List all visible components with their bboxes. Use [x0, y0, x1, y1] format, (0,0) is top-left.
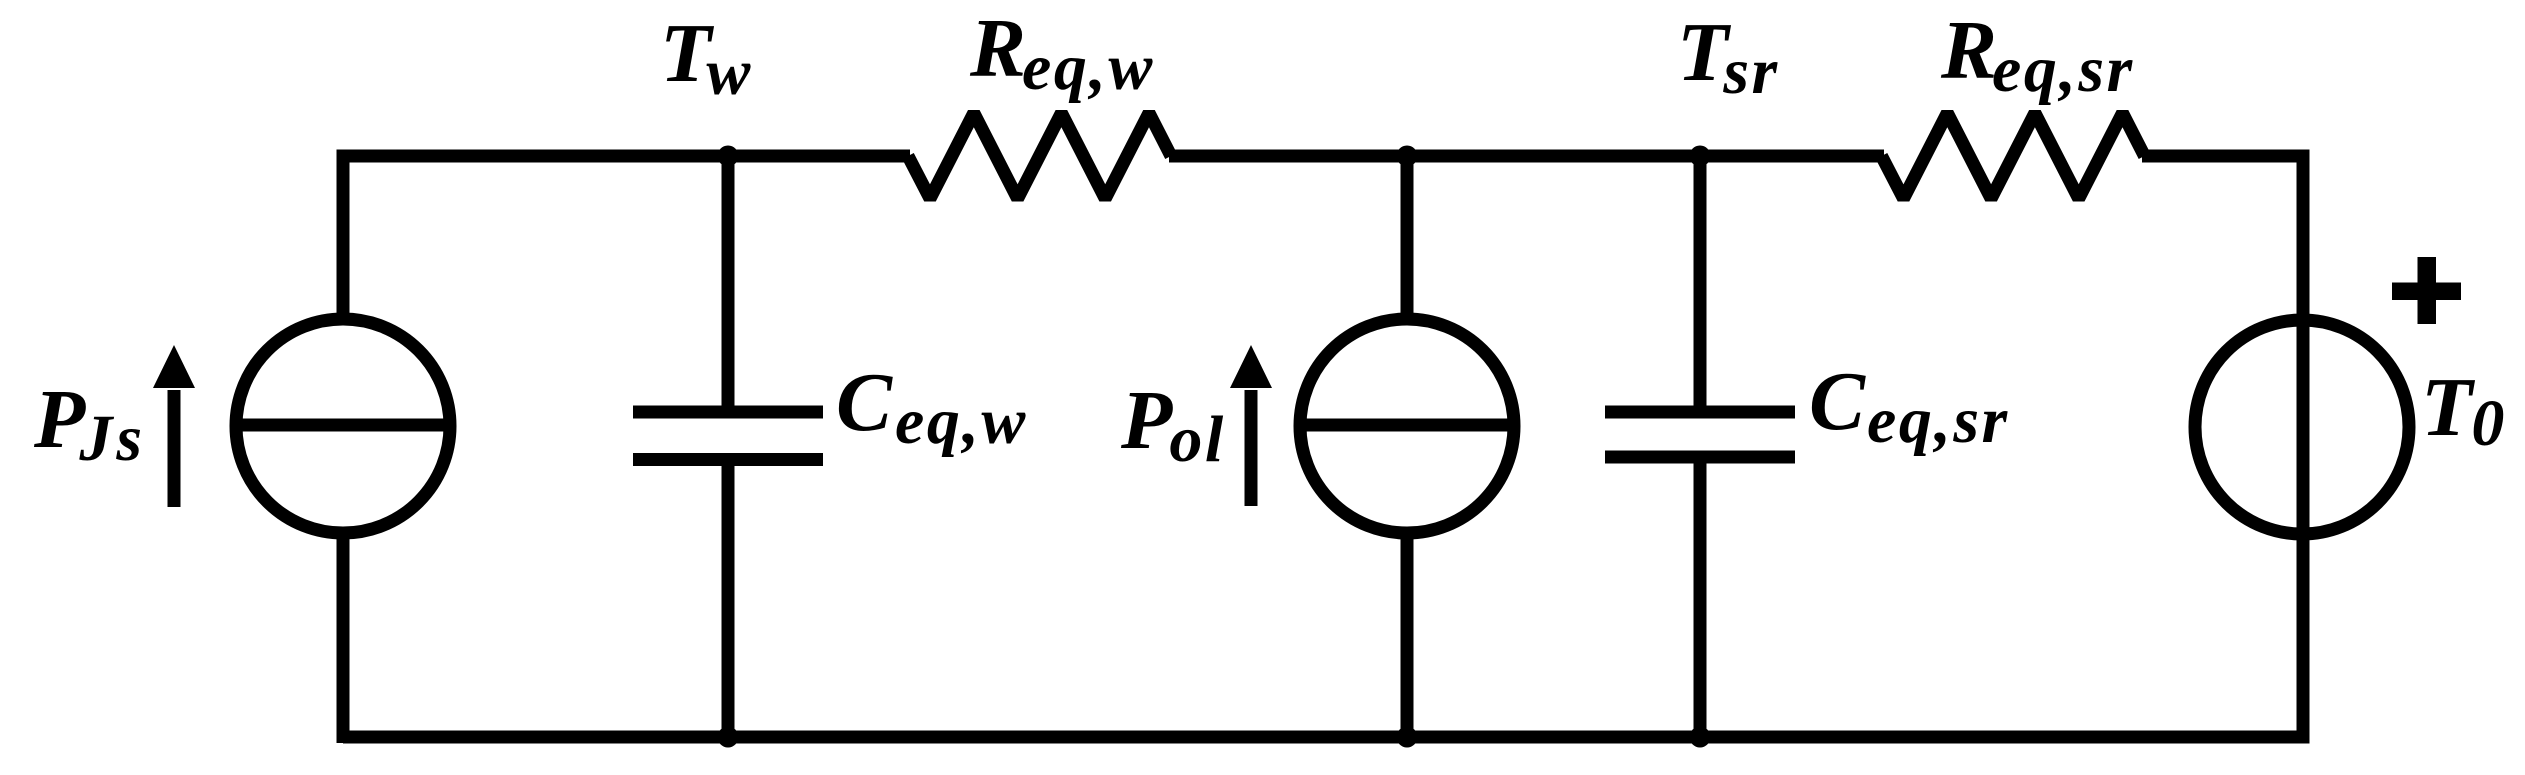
wire right vertical through T_0 source [2297, 150, 2310, 744]
wire top rail left segment [343, 150, 910, 163]
capacitor C_eq,sr top plate [1605, 406, 1795, 419]
node T_sr junction dot bottom [1690, 727, 1711, 748]
node P_ol junction dot bottom [1397, 727, 1418, 748]
capacitor C_eq,w bottom plate [633, 453, 823, 466]
arrow of source P_Js [153, 345, 195, 507]
wire T_sr branch upper [1694, 156, 1707, 406]
capacitor C_eq,sr bottom plate [1605, 451, 1795, 464]
node T_sr junction dot top [1690, 146, 1711, 167]
wire bottom rail [343, 731, 2303, 744]
voltage source T_0 circle [2195, 320, 2409, 534]
wire left vertical upper [337, 150, 350, 320]
wire T_sr branch lower [1694, 464, 1707, 738]
wire left vertical lower [337, 533, 350, 743]
wire top rail right segment [2142, 150, 2303, 163]
wire T_w branch upper [722, 156, 735, 406]
capacitor C_eq,w top plate [633, 406, 823, 419]
wire P_ol branch lower [1401, 533, 1414, 737]
wire top rail middle segment [1169, 150, 1884, 163]
current source P_ol circle [1300, 319, 1514, 533]
resistor R_eq,sr [1882, 113, 2145, 199]
node T_w junction dot bottom [718, 727, 739, 748]
node T_w junction dot top [718, 146, 739, 167]
wire T_w branch lower [722, 466, 735, 737]
node P_ol junction dot top [1397, 146, 1418, 167]
current source P_ol diameter bar [1300, 419, 1514, 432]
plus sign of source T_0 [2392, 257, 2461, 324]
arrow of source P_ol [1230, 345, 1272, 506]
resistor R_eq,w [908, 113, 1171, 199]
current source P_Js diameter bar [236, 419, 450, 432]
current source P_Js circle [236, 319, 450, 533]
wire P_ol branch upper [1401, 156, 1414, 319]
